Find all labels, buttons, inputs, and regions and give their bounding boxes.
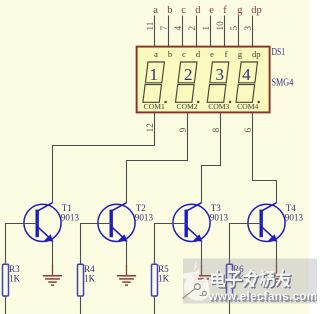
wire below R3 [5, 296, 7, 314]
svg-text:a: a [154, 49, 158, 59]
wire base of T4 to R6 [230, 224, 263, 265]
ground under T4 [267, 265, 286, 285]
svg-text:3: 3 [243, 26, 253, 31]
transistor T3 (9013 NPN) [173, 203, 210, 242]
svg-text:e: e [210, 49, 214, 59]
svg-text:b: b [167, 5, 172, 16]
svg-text:COM4: COM4 [237, 102, 258, 111]
svg-text:5: 5 [229, 26, 239, 31]
svg-text:www.elecfans.com: www.elecfans.com [208, 291, 317, 303]
wire COM1 to T1 collector [53, 113, 155, 204]
ground under T1 [43, 265, 62, 285]
resistor R6 body [227, 264, 233, 296]
wire below R4 [80, 296, 82, 314]
svg-text:a: a [153, 5, 158, 16]
7-segment display DS1 body [137, 47, 270, 113]
wire base of T2 to R4 [81, 224, 113, 265]
digit cell 4 upper segment outline [239, 62, 258, 83]
svg-text:COM2: COM2 [176, 102, 197, 111]
digit cell 3 lower segment outline [207, 85, 226, 103]
svg-text:f: f [225, 49, 228, 59]
svg-text:1: 1 [201, 26, 211, 31]
digit cell 1 upper segment outline [145, 62, 164, 83]
wire COM3 to T3 collector [202, 113, 221, 204]
digit cell 2 upper segment outline [178, 62, 197, 83]
decimal point 4 [258, 101, 260, 103]
svg-text:d: d [195, 5, 201, 16]
wire pin f [224, 16, 226, 47]
svg-text:9013: 9013 [210, 212, 229, 222]
svg-text:f: f [223, 5, 227, 16]
wire pin e [210, 16, 212, 47]
svg-text:6: 6 [243, 127, 253, 132]
wire pin a [154, 16, 156, 47]
decimal point 3 [229, 101, 231, 103]
svg-text:10: 10 [215, 21, 225, 31]
wire below R6 [229, 296, 231, 314]
svg-text:11: 11 [145, 21, 155, 30]
svg-text:dp: dp [251, 5, 261, 16]
svg-text:4: 4 [173, 26, 183, 31]
svg-text:9: 9 [178, 127, 188, 132]
wire T2 emitter to ground [126, 242, 128, 267]
wire T4 emitter to ground [276, 242, 278, 267]
svg-text:9013: 9013 [135, 212, 154, 222]
svg-text:1K: 1K [9, 273, 21, 283]
svg-text:c: c [181, 5, 186, 16]
svg-text:g: g [237, 5, 243, 16]
svg-text:dp: dp [252, 49, 261, 59]
decimal point 1 [165, 101, 167, 103]
svg-text:1K: 1K [158, 273, 170, 283]
wire below R5 [154, 296, 156, 314]
digit cell 3 upper segment outline [210, 62, 229, 83]
digit cell 2 lower segment outline [176, 85, 195, 103]
svg-text:8: 8 [211, 127, 221, 132]
resistor R4 body [78, 264, 84, 296]
watermark elecfans logo and text [183, 259, 317, 304]
svg-text:7: 7 [159, 26, 169, 31]
transistor T2 (9013 NPN) [98, 203, 135, 242]
ground under T2 [117, 265, 136, 285]
wire pin d [196, 16, 198, 47]
wire COM2 to T2 collector [127, 113, 188, 204]
wire T1 emitter to ground [52, 242, 54, 267]
svg-text:2: 2 [184, 65, 193, 84]
ground under T3 [192, 265, 211, 285]
svg-text:DS1: DS1 [272, 47, 286, 58]
wire pin g [238, 16, 240, 47]
wire pin c [182, 16, 184, 47]
resistor R5 body [152, 264, 158, 296]
digit cell 4 lower segment outline [236, 85, 255, 103]
svg-text:9013: 9013 [285, 212, 304, 222]
resistor R3 body [3, 264, 9, 296]
svg-text:1K: 1K [84, 273, 96, 283]
svg-text:b: b [168, 49, 172, 59]
svg-text:4: 4 [242, 65, 251, 84]
svg-text:2: 2 [187, 26, 197, 31]
svg-text:12: 12 [145, 123, 155, 133]
wire base of T1 to R3 [6, 224, 39, 265]
svg-text:COM1: COM1 [144, 102, 165, 111]
transistor T4 (9013 NPN) [248, 203, 285, 242]
wire pin b [168, 16, 170, 47]
svg-text:e: e [209, 5, 214, 16]
digit cell 1 lower segment outline [143, 85, 162, 103]
svg-text:SMG4: SMG4 [272, 78, 294, 89]
svg-text:c: c [182, 49, 186, 59]
decimal point 2 [197, 101, 199, 103]
wire COM4 to T4 collector [253, 113, 277, 204]
wire base of T3 to R5 [155, 224, 188, 265]
svg-text:9013: 9013 [61, 212, 80, 222]
svg-text:1: 1 [150, 65, 159, 84]
transistor T1 (9013 NPN) [24, 203, 61, 242]
svg-text:3: 3 [215, 65, 224, 84]
svg-text:COM3: COM3 [208, 102, 229, 111]
wire T3 emitter to ground [201, 242, 203, 267]
wire pin dp [252, 16, 254, 47]
